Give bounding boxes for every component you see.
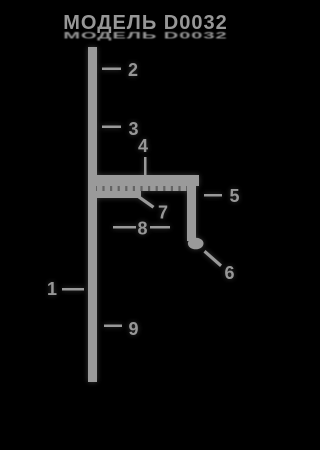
lower band under shelf (left root block) xyxy=(95,191,141,198)
svg-text:МОДЕЛЬ D0032: МОДЕЛЬ D0032 xyxy=(63,12,227,34)
leader dash left of 8 xyxy=(113,226,136,229)
leader dash for 2 xyxy=(102,68,121,71)
svg-text:2: 2 xyxy=(128,60,138,80)
svg-text:7: 7 xyxy=(158,203,168,223)
leader line for 4 (vertical) xyxy=(144,157,147,177)
svg-text:9: 9 xyxy=(129,319,139,339)
teeth under shelf xyxy=(97,186,194,191)
leader dash for 3 xyxy=(102,126,121,129)
top shelf (horizontal flange) xyxy=(95,175,199,186)
svg-text:1: 1 xyxy=(47,279,57,299)
svg-text:3: 3 xyxy=(129,119,139,139)
leader dash right of 8 xyxy=(150,226,170,229)
svg-text:8: 8 xyxy=(138,219,148,239)
jpeg-noise halo (blurred echo of artwork) xyxy=(47,47,240,382)
svg-text:4: 4 xyxy=(138,136,148,156)
leader line for 7 (diagonal arrow) xyxy=(136,194,155,209)
main vertical profile bar xyxy=(88,47,97,382)
svg-text:6: 6 xyxy=(225,263,235,283)
lip foot (curved end) xyxy=(188,238,204,250)
leader dash for 1 xyxy=(62,288,84,291)
svg-text:5: 5 xyxy=(230,186,240,206)
leader line for 6 (diagonal) xyxy=(204,250,223,267)
leader dash for 5 xyxy=(204,194,222,197)
leader dash for 9 xyxy=(104,325,122,328)
teeth row backing xyxy=(96,186,196,191)
right vertical lip xyxy=(187,177,196,241)
